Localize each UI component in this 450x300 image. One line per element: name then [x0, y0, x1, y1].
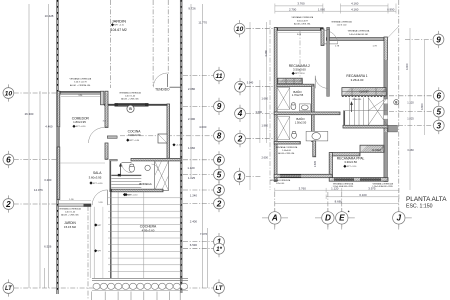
second dim line y=11.2 [275, 10, 396, 12]
hall wall x=313-316 [313, 141, 316, 157]
middle wall y=112-114.7 [274, 112, 340, 115]
east wall gray fill [384, 60, 387, 128]
recamara 2 east wall [321, 29, 324, 46]
recamara 1 closet band [342, 88, 386, 96]
grid marker 2 (right col) [214, 195, 225, 212]
grid leader 1 right [183, 241, 214, 243]
svg-text:NPT +0.30: NPT +0.30 [130, 140, 140, 142]
vanity counter [306, 131, 328, 141]
stair top edge [111, 174, 141, 176]
svg-text:3.60x3.95: 3.60x3.95 [89, 175, 102, 179]
svg-text:2.845: 2.845 [314, 160, 317, 167]
svg-text:1.025: 1.025 [188, 176, 196, 180]
grid leader 1* right [183, 248, 214, 250]
svg-text:1.40x1.40 ALUM. 6M.: 1.40x1.40 ALUM. 6M. [349, 33, 369, 36]
svg-text:4.95x3.60: 4.95x3.60 [142, 229, 155, 233]
grid marker 11 [214, 67, 225, 84]
svg-text:BAÑO: BAÑO [293, 89, 302, 94]
grid marker 7 [235, 78, 246, 95]
svg-text:1.40 X 1.40: 1.40 X 1.40 [337, 24, 347, 26]
grid marker 6 left [3, 151, 14, 168]
dim 1.90 porch [58, 200, 92, 202]
svg-text:*: * [348, 210, 350, 215]
svg-text:6: 6 [6, 155, 11, 164]
comedor-cocina divider wall (upper) [105, 91, 108, 127]
center dash-dot line x=110 (jardin) [109, 0, 111, 88]
bano 2 bottom wall [274, 141, 300, 144]
grid leader 3 (right) [398, 125, 433, 127]
svg-text:0.990: 0.990 [387, 7, 395, 11]
stair structure upper: risers [349, 98, 351, 125]
svg-text:ALUM. + CRISTAL 6M.: ALUM. + CRISTAL 6M. [70, 84, 91, 87]
svg-text:ESC. 1:150: ESC. 1:150 [406, 204, 433, 210]
stair left wall (upper) [343, 111, 345, 128]
svg-text:3.00x1.40 H: 3.00x1.40 H [297, 20, 308, 22]
svg-text:1.40x0.60: 1.40x0.60 [282, 150, 292, 152]
grid marker 6 (right col) [214, 151, 225, 168]
grid leader 6 (right) [389, 95, 433, 97]
section marker B [394, 100, 399, 105]
house west wall (sala lower) [57, 147, 60, 200]
svg-text:VENTANA CORREDIZA: VENTANA CORREDIZA [59, 207, 81, 210]
comedor door swing arc [89, 127, 105, 143]
bottom window bands [334, 177, 354, 179]
house bottom wall (left segment) [274, 174, 332, 177]
dim 3.00 under window [278, 32, 320, 34]
svg-text:VENTANA CORREDIZA: VENTANA CORREDIZA [276, 146, 298, 149]
comedor-sala beam line [60, 162, 105, 164]
bottom dim line y=203.3 [275, 202, 399, 204]
grid marker D [322, 209, 334, 228]
east wall door gaps [384, 99, 388, 103]
entry door swing arc [92, 190, 107, 205]
bano 1 shower diagonals [277, 88, 290, 110]
svg-text:4.160: 4.160 [351, 2, 359, 6]
cocina top wall with window [104, 104, 170, 106]
svg-text:ALUM.+CRIS. 6M.: ALUM.+CRIS. 6M. [294, 23, 311, 26]
NPT +0.10 jardin [111, 23, 114, 26]
svg-text:2.400: 2.400 [190, 219, 198, 223]
svg-text:10: 10 [5, 90, 13, 97]
dash-dot line x=270 [269, 20, 271, 190]
grid leader 4 [246, 112, 274, 114]
svg-text:3.975: 3.975 [368, 186, 376, 190]
cocina door leaf (open) [107, 136, 117, 138]
svg-text:9: 9 [217, 102, 222, 111]
svg-text:7.076: 7.076 [200, 232, 208, 236]
svg-text:3: 3 [437, 121, 442, 130]
dimension line x=40 (left chain, 14.076) [39, 91, 41, 288]
top dimension line right plan y=5.9 [275, 5, 323, 7]
grid marker LT left [3, 279, 14, 296]
dimension line x=44.7 (bottom left chain) [44, 268, 46, 288]
bano 1 top wall [277, 84, 314, 86]
svg-text:26.300: 26.300 [25, 112, 34, 116]
svg-text:1.70x2.55: 1.70x2.55 [292, 93, 304, 97]
house west wall (recamara 2 / banos) [274, 28, 277, 182]
recamara 2 top window wall [278, 27, 320, 29]
grid marker 9 (right plan) [433, 31, 444, 48]
grid marker 4 [235, 105, 246, 122]
grid letter stems [274, 192, 276, 212]
grid leader LT bottom [14, 287, 214, 289]
svg-text:ALUM.+CRIS. 6M.: ALUM.+CRIS. 6M. [278, 152, 295, 155]
svg-text:5.040: 5.040 [247, 81, 254, 85]
comedor-cocina step wall [101, 91, 104, 105]
grid leader 6 left [14, 159, 57, 161]
corridor wall x=327-329 [327, 29, 330, 96]
stone band bottom line [92, 290, 188, 292]
svg-text:1.660: 1.660 [261, 97, 268, 101]
svg-text:11.770: 11.770 [198, 21, 207, 25]
left lot boundary wall [56, 0, 59, 294]
divider wall foot [110, 159, 118, 161]
bano 1 toilet [291, 104, 296, 110]
dimension line x=48.5 (left chain) [48, 4, 50, 288]
svg-text:6: 6 [217, 156, 222, 165]
svg-text:4.000: 4.000 [199, 125, 207, 129]
svg-text:VENTANA CORREDIZA: VENTANA CORREDIZA [373, 182, 394, 185]
NPT +0.30 comedor [72, 125, 75, 128]
svg-text:3.760: 3.760 [297, 2, 305, 6]
grid marker 2 (right plan) [235, 130, 246, 147]
svg-text:1.120: 1.120 [187, 166, 195, 170]
grid leader 5 (right) [389, 111, 433, 113]
marker leader dashes A-D-E-J [282, 217, 289, 219]
svg-text:1.40 X 1.40: 1.40 X 1.40 [65, 212, 76, 214]
bano 2 toilet [292, 132, 297, 138]
half-bath sink [145, 165, 150, 170]
wall bano1/bano2 divider x=311-314 [311, 86, 314, 141]
grid leader 1 (right plan) [246, 176, 262, 178]
grid leader 10 (right plan) [246, 28, 274, 30]
cocina east wall [167, 104, 170, 159]
dim 3.26 under window [61, 96, 100, 98]
svg-text:10: 10 [236, 26, 244, 33]
fence posts below band [91, 292, 93, 300]
comedor-cocina divider wall (lower) [105, 143, 108, 159]
dimension line x=207.4 (bottom right chain) [206, 228, 208, 288]
recamara ppal closet band [360, 145, 384, 152]
grid leader 5 right [183, 174, 214, 176]
svg-text:J: J [397, 214, 402, 223]
svg-text:A: A [271, 214, 278, 223]
svg-text:E: E [339, 214, 345, 223]
sidewalk double line [92, 277, 188, 279]
recamara 1 door swing [315, 76, 328, 89]
svg-text:1.120: 1.120 [331, 186, 339, 190]
svg-text:BAÑO: BAÑO [296, 116, 305, 121]
svg-text:3.00x3.00: 3.00x3.00 [128, 133, 141, 137]
svg-text:7: 7 [238, 82, 243, 91]
svg-text:3.460: 3.460 [407, 148, 414, 152]
svg-text:B: B [129, 107, 132, 111]
grid marker 2 left [3, 195, 14, 212]
svg-text:8: 8 [217, 132, 222, 141]
svg-text:2: 2 [216, 199, 222, 208]
NPT +0.10 tendido side [172, 143, 175, 146]
bano 2 shower diagonals [277, 117, 290, 140]
grid marker 10 (right plan) [234, 20, 245, 37]
dimension line x=410 [409, 28, 411, 190]
stair direction arrow [120, 165, 122, 177]
svg-text:15.15 M2: 15.15 M2 [64, 225, 76, 229]
dash-dot line x=168.3 [167, 0, 169, 74]
svg-text:VENTANA CORREDIZA: VENTANA CORREDIZA [333, 182, 354, 185]
svg-text:6.100: 6.100 [359, 193, 367, 197]
NPT +0.30 sala [89, 181, 92, 184]
svg-text:JARDIN: JARDIN [112, 18, 127, 23]
svg-text:NPT +0.10: NPT +0.10 [114, 25, 124, 27]
svg-text:1: 1 [237, 172, 242, 181]
svg-text:2.700: 2.700 [289, 7, 297, 11]
svg-text:3.200: 3.200 [44, 178, 52, 182]
grid leader 2 right [183, 203, 214, 205]
svg-text:4.280: 4.280 [264, 50, 268, 57]
svg-text:2.390: 2.390 [188, 117, 196, 121]
house bottom wall (right segment) [329, 178, 388, 182]
svg-text:ALUM. + CRIS. 6M.: ALUM. + CRIS. 6M. [61, 214, 79, 217]
stair diagonals (fan) [368, 98, 387, 125]
grid marker 5 (right plan) [433, 103, 444, 120]
stair bottom wall [111, 189, 163, 192]
staircase treads (planta baja) [111, 175, 141, 177]
svg-text:ALUM. + CRIS. 6M.: ALUM. + CRIS. 6M. [121, 98, 139, 101]
svg-text:14.076: 14.076 [34, 188, 43, 192]
svg-text:VENTANA CORREDIZA: VENTANA CORREDIZA [70, 78, 92, 81]
svg-text:CLOSET: CLOSET [359, 91, 369, 94]
svg-text:2: 2 [237, 134, 243, 143]
svg-text:VENTANA CORREDIZA: VENTANA CORREDIZA [270, 179, 291, 182]
svg-text:NPT +0.30: NPT +0.30 [93, 183, 103, 185]
dimension line x=250 [249, 22, 251, 190]
svg-text:1.40 X 1.40: 1.40 X 1.40 [125, 96, 136, 98]
cochera guide line x=118 [117, 192, 119, 278]
dimension line x=424 [423, 40, 425, 135]
svg-text:1.060: 1.060 [318, 7, 326, 11]
recamara 1 top window wall [330, 37, 384, 39]
svg-text:4.600: 4.600 [420, 103, 424, 110]
NPT +0.30 cocina [126, 139, 129, 142]
stair left wall [109, 161, 111, 192]
dim ticks top [274, 4, 276, 14]
tendido sill line [170, 86, 182, 88]
grid marker 1 [214, 233, 225, 250]
dash-dot line x=153 [152, 0, 154, 86]
closet bottom dashed wall [342, 96, 387, 98]
svg-text:NPT +3.10: NPT +3.10 [347, 166, 357, 168]
svg-text:5: 5 [217, 170, 222, 179]
gate post [84, 204, 92, 207]
svg-text:TENDIDO: TENDIDO [155, 87, 170, 91]
svg-text:9.726: 9.726 [188, 6, 196, 10]
svg-text:VENTANA CORREDIZA: VENTANA CORREDIZA [331, 20, 352, 23]
svg-text:3: 3 [217, 186, 222, 195]
house west wall (comedor upper) [57, 91, 60, 127]
svg-text:2.080: 2.080 [188, 87, 196, 91]
svg-text:CLOSET: CLOSET [372, 149, 382, 152]
svg-text:1.05x1.40: 1.05x1.40 [276, 183, 284, 185]
svg-text:4.160: 4.160 [351, 7, 359, 11]
svg-text:VENTANA CORREDIZA: VENTANA CORREDIZA [292, 16, 314, 19]
grid leader 3 right [183, 189, 214, 191]
grid leader 9 right [183, 105, 214, 107]
dimension line x=29 (left chain, 26.300) [28, 4, 30, 288]
svg-text:+0.10: +0.10 [176, 145, 182, 147]
svg-text:5: 5 [437, 107, 442, 116]
svg-text:3.30x3.50: 3.30x3.50 [344, 160, 357, 164]
NPT +0.10 under stairs [124, 193, 127, 196]
stove rectangle [158, 134, 167, 143]
svg-text:NPT +0.30: NPT +0.30 [76, 126, 86, 128]
diagonal at top-right corner [388, 27, 399, 39]
grid marker A [269, 209, 281, 228]
recamara 2 door swing [324, 30, 338, 44]
svg-text:D: D [325, 214, 331, 223]
grid leader 2 (right plan) [246, 138, 274, 140]
grid marker 10 left [3, 84, 14, 101]
svg-text:1.960: 1.960 [261, 123, 268, 127]
west wall window (comedor) [57, 127, 60, 147]
half-bath WC [129, 165, 134, 172]
recamara ppal top wall [331, 153, 360, 156]
svg-text:1.80x3.95: 1.80x3.95 [73, 120, 86, 124]
svg-text:2.600: 2.600 [261, 155, 268, 159]
svg-text:+0.15: +0.15 [126, 194, 131, 196]
cochera guide line x=144 [143, 192, 145, 278]
NPT +3.10 recamara ppal [343, 165, 346, 168]
grid marker 5 [214, 166, 225, 183]
recamara 2 closet band [278, 78, 303, 84]
sala south window wall [58, 203, 84, 205]
svg-text:4.460: 4.460 [45, 125, 53, 129]
svg-text:NPT +3.10: NPT +3.10 [295, 73, 305, 75]
grid marker 3 (right plan) [433, 117, 444, 134]
tendido door swing arc [153, 73, 167, 87]
svg-text:1.50x2.50: 1.50x2.50 [295, 121, 307, 125]
svg-text:1.120: 1.120 [407, 101, 414, 105]
svg-text:4.000: 4.000 [405, 63, 409, 70]
svg-text:4: 4 [237, 109, 243, 118]
svg-text:1*: 1* [216, 246, 222, 253]
lot line dash-dot x=399 (right plan) [398, 0, 400, 212]
grid leader 2 left [14, 203, 57, 205]
stair arrow start post [118, 174, 121, 176]
NPT +0.15 cochera [123, 193, 126, 196]
cochera west wall [110, 190, 112, 279]
svg-text:104.67 M2: 104.67 M2 [111, 28, 127, 32]
grid marker 1* [214, 240, 225, 257]
dimension line x=266.5 [266, 22, 268, 143]
grid leader 9 (right plan right) [405, 39, 432, 41]
boiler circle [127, 105, 134, 112]
svg-text:1.660: 1.660 [188, 146, 196, 150]
grid marker 1 (right plan) [234, 168, 245, 185]
bano 1 sink counter [299, 104, 310, 111]
svg-text:VENTANA CORREDIZA: VENTANA CORREDIZA [348, 30, 370, 33]
cocina door leaf [122, 161, 132, 163]
grid marker LT right [214, 279, 225, 296]
svg-text:VENTANA CORREDIZA: VENTANA CORREDIZA [119, 91, 141, 94]
svg-text:11: 11 [215, 73, 222, 80]
svg-text:3.760: 3.760 [299, 186, 307, 190]
svg-text:6: 6 [437, 92, 442, 101]
grid marker 9 [214, 98, 225, 115]
cochera floor hatch [108, 197, 181, 199]
stair direction arrow (upper) [351, 103, 353, 112]
svg-text:9: 9 [436, 35, 441, 44]
stone paving band [93, 283, 100, 289]
grid leader 7 [246, 86, 274, 88]
dimension line x=191 (right chain) [190, 4, 192, 177]
half-bath door swing [152, 164, 159, 171]
dash-dot line x=88 (front walk) [87, 206, 89, 300]
svg-text:1.025: 1.025 [407, 117, 414, 121]
stair side wall (bodega enclosure) [155, 161, 169, 191]
grid marker E [336, 209, 348, 228]
house east wall [384, 37, 387, 181]
grid leader 6 right [183, 159, 214, 161]
svg-text:PLANTA ALTA: PLANTA ALTA [406, 196, 447, 203]
bottom-left window band [280, 174, 301, 176]
comedor top window wall [61, 90, 101, 92]
svg-text:3.25x4.00: 3.25x4.00 [351, 78, 364, 82]
half-bath top wall [131, 158, 181, 161]
grid marker 6 (right plan) [433, 87, 444, 104]
grid leader 8 right [120, 135, 214, 137]
stair landing horizontal [343, 110, 387, 112]
NPT +0.15 jardin front [94, 223, 97, 226]
bottom dim line y=196.8 [326, 196, 399, 198]
grid leader 11 right [183, 75, 214, 77]
grid marker 8 [214, 127, 225, 144]
svg-text:3.50x3.60: 3.50x3.60 [293, 68, 306, 72]
svg-text:1.240: 1.240 [190, 194, 198, 198]
tendido door leaf [167, 74, 169, 87]
right lot boundary wall [180, 0, 183, 293]
svg-text:2: 2 [5, 200, 11, 209]
NPT +3.10 recamara 2 [292, 72, 295, 75]
grid marker J [393, 209, 405, 228]
svg-text:10.428: 10.428 [45, 14, 54, 18]
step wall between top walls [327, 27, 330, 39]
svg-text:BODEGA: BODEGA [139, 182, 151, 186]
grid leader 10 left [14, 92, 57, 94]
svg-text:8.660: 8.660 [335, 200, 343, 204]
dimension line x=202.7 (right chain) [202, 4, 204, 288]
entry walk lines [89, 207, 91, 278]
dimension line x=259.9 [259, 80, 261, 143]
svg-text:6.530: 6.530 [190, 243, 198, 247]
grid marker 3 [214, 181, 225, 198]
svg-text:3.26 X 1.20 H: 3.26 X 1.20 H [74, 82, 87, 84]
stair sidewall diagonals [155, 161, 169, 191]
svg-text:6.526: 6.526 [44, 245, 52, 249]
bottom dim line y=190.2 [275, 189, 399, 191]
svg-text:1.20x1.40 ALUM.+CRIS.: 1.20x1.40 ALUM.+CRIS. [372, 185, 393, 188]
cocina door swing arc [122, 163, 132, 173]
dash-dot line x=300 (through recamara 2) [299, 31, 301, 85]
stair bottom wall (to lot line) [343, 125, 388, 128]
recamara ppal west wall [329, 153, 332, 178]
